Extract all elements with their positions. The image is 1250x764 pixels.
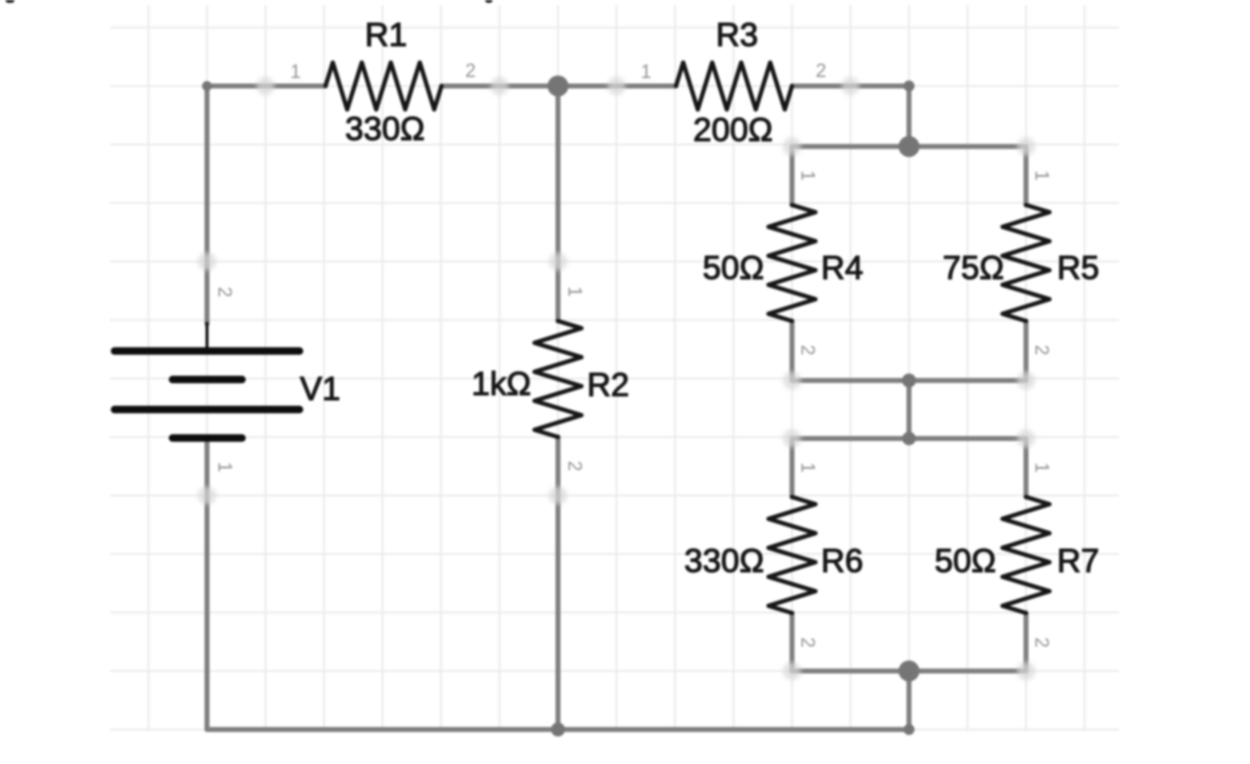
wire R4 bottom lead [790, 321, 795, 381]
battery V1 plate long top [115, 347, 300, 355]
junction node A (R1/R3/R2) [548, 76, 569, 97]
wire R3 pin2 to corner, down to node B [792, 86, 909, 147]
svg-text:50Ω: 50Ω [935, 542, 996, 579]
battery V1 top lead [206, 322, 209, 351]
svg-text:330Ω: 330Ω [684, 542, 764, 579]
background grid [110, 5, 1119, 731]
resistor R3 body [676, 63, 792, 110]
svg-text:2: 2 [564, 461, 585, 472]
svg-text:R3: R3 [716, 16, 758, 53]
junction node E (bottom of R6/R7) [899, 661, 920, 682]
wire node A down to R2 pin1 [556, 86, 561, 321]
wire R7 bottom lead [1024, 613, 1029, 671]
battery V1 symbol [115, 322, 300, 438]
junction corner battery top [202, 81, 212, 91]
resistor R7 body [1003, 497, 1050, 613]
svg-text:1kΩ: 1kΩ [471, 365, 531, 402]
battery V1 plate long lower [115, 406, 300, 414]
wire node C to node D link [907, 381, 912, 439]
svg-text:50Ω: 50Ω [703, 249, 764, 286]
wire R6 bottom lead [790, 613, 795, 671]
svg-text:R6: R6 [821, 542, 863, 579]
svg-text:1: 1 [290, 62, 301, 83]
wire R5 top lead [1024, 147, 1029, 206]
resistor R1 body [326, 63, 442, 110]
svg-text:2: 2 [465, 61, 476, 82]
junction corner ground rail right end [904, 724, 915, 735]
wire bottom ground rail [207, 727, 909, 732]
wire R7 top lead [1024, 439, 1029, 498]
svg-text:1: 1 [214, 462, 235, 473]
resistor R4 body [769, 205, 816, 321]
wire lower parallel rail (node D) [792, 436, 1026, 441]
cropped glyph remnant top-left [6, 0, 15, 3]
svg-text:2: 2 [816, 61, 827, 82]
wire R5 bottom lead [1024, 321, 1029, 381]
svg-text:R4: R4 [821, 249, 863, 286]
wire R6 top lead [790, 439, 795, 498]
svg-text:2: 2 [1031, 345, 1052, 356]
wire R1 pin2 to R3 pin1 through node [442, 84, 677, 89]
svg-text:1: 1 [641, 62, 652, 83]
svg-text:330Ω: 330Ω [345, 110, 425, 147]
junction R2 bottom on ground rail [551, 723, 565, 737]
cropped glyph remnant top-middle [485, 0, 492, 3]
svg-text:1: 1 [797, 462, 818, 473]
pin connection highlights [198, 77, 1035, 680]
wire R2 pin2 to ground rail [556, 437, 561, 730]
svg-text:2: 2 [1031, 637, 1052, 648]
wire R4 top lead [790, 147, 795, 206]
battery V1 plate short bottom [173, 434, 243, 442]
svg-text:R7: R7 [1057, 542, 1099, 579]
junction corner R3 right [904, 81, 915, 92]
wire battery bottom to ground rail [205, 438, 210, 730]
svg-text:R1: R1 [365, 16, 407, 53]
svg-text:200Ω: 200Ω [693, 111, 773, 148]
svg-text:2: 2 [797, 637, 818, 648]
svg-text:1: 1 [797, 170, 818, 181]
wire battery top to R1 pin1 [207, 86, 326, 324]
resistor R2 body [535, 321, 582, 437]
junction node C (bottom of R4/R5) [902, 374, 916, 388]
svg-text:1: 1 [1031, 170, 1052, 181]
resistor R6 body [769, 497, 816, 613]
svg-text:V1: V1 [300, 370, 340, 407]
svg-text:2: 2 [214, 287, 235, 298]
wire bottom parallel rail (node E) [792, 669, 1026, 674]
wire mid parallel rail (node C) [792, 378, 1026, 383]
wire node E down to ground rail [907, 671, 912, 730]
junction node D (top of R6/R7) [902, 432, 916, 446]
svg-text:2: 2 [797, 345, 818, 356]
junction node B (top of R4/R5) [899, 136, 920, 157]
wire top parallel rail (node B) [792, 144, 1026, 149]
svg-text:1: 1 [564, 286, 585, 297]
svg-text:R5: R5 [1057, 249, 1099, 286]
battery V1 plate short upper [173, 376, 243, 384]
svg-text:75Ω: 75Ω [943, 249, 1004, 286]
svg-text:1: 1 [1031, 462, 1052, 473]
svg-text:R2: R2 [587, 366, 629, 403]
resistor R5 body [1003, 205, 1050, 321]
